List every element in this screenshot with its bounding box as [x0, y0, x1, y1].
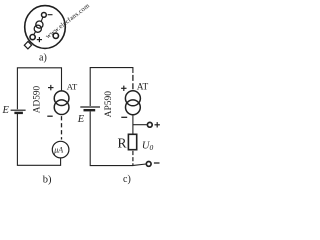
svg-text:E: E — [2, 105, 10, 116]
svg-text:AT: AT — [67, 81, 78, 91]
svg-text:c): c) — [123, 174, 131, 185]
svg-text:μA: μA — [53, 146, 63, 155]
svg-text:b): b) — [43, 175, 52, 186]
svg-text:AT: AT — [137, 83, 149, 93]
svg-text:R: R — [118, 136, 127, 151]
svg-text:U0: U0 — [142, 140, 154, 152]
svg-text:E: E — [77, 114, 85, 125]
svg-text:a): a) — [39, 52, 47, 63]
svg-text:AD590: AD590 — [33, 85, 43, 113]
svg-text:AP590: AP590 — [104, 91, 114, 118]
